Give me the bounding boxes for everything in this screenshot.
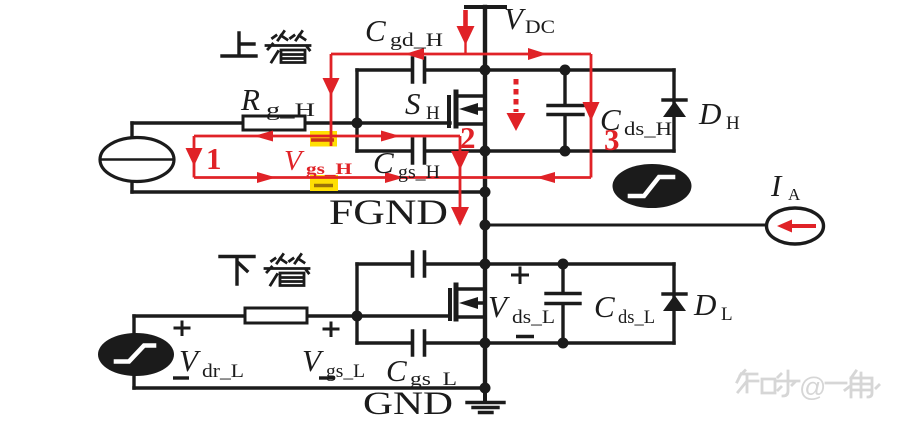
capacitor C_gs_H — [413, 139, 425, 163]
svg-text:C: C — [365, 13, 386, 48]
wire C_gs_H line y=151 (source line to D_H loop bottom) — [357, 149, 674, 152]
wire red loop2 vertical x=460 — [459, 136, 462, 224]
wire top loop line y=70 (gate to C_gd_H to drain rail to D_H) — [357, 68, 674, 71]
svg-text:GND: GND — [363, 386, 453, 421]
diode D_L branch wire — [672, 264, 675, 343]
svg-text:gd_H: gd_H — [390, 30, 443, 51]
node plus highlight (yellow) — [310, 131, 337, 147]
capacitor C_gd_L — [413, 252, 425, 276]
wire upper-left loop vertical — [355, 70, 358, 151]
arrow down loop1 — [186, 148, 203, 166]
node drain_L — [480, 259, 491, 270]
arrow down x=460 lower — [451, 207, 469, 226]
node dots — [352, 65, 571, 394]
arrow down on x=331 — [323, 78, 340, 96]
capacitor C_ds_H — [548, 70, 583, 151]
resistor R_g_H — [243, 116, 305, 130]
wire red vertical to gate plus — [330, 54, 333, 146]
diode D_H branch wire — [672, 70, 675, 151]
node Cds_H top — [560, 65, 571, 76]
driver icon U_H (black ellipse with slew symbol) — [613, 164, 692, 208]
minus sign Vgs_H — [314, 184, 333, 188]
wire C_gs_L line y=343 — [357, 341, 674, 344]
arrow right on y=136 — [381, 131, 400, 142]
node gate_L — [352, 311, 363, 322]
wire red gate line y=136 — [194, 135, 460, 138]
arrow right on y=177.5 mid — [385, 172, 404, 183]
wire red dashed drain current — [514, 79, 519, 112]
svg-text:V: V — [504, 1, 526, 36]
svg-text:D: D — [693, 287, 716, 322]
svg-text:L: L — [721, 304, 733, 325]
svg-text:C: C — [594, 289, 615, 324]
svg-text:A: A — [788, 185, 801, 204]
RED-OVERLAY — [194, 10, 591, 224]
capacitor C_ds_L — [546, 264, 580, 343]
svg-text:gs_H: gs_H — [306, 161, 353, 178]
svg-text:ds_H: ds_H — [624, 119, 672, 140]
svg-text:1: 1 — [206, 141, 222, 176]
node Cds_L bottom — [558, 338, 569, 349]
arrow left on y=136 — [254, 131, 273, 142]
diode D_L symbol — [663, 292, 686, 295]
source V_dr_H (upper driver source circle) — [130, 123, 133, 192]
arrow red feed down — [457, 26, 475, 45]
node gate_H — [352, 118, 363, 129]
diode D_H symbol — [663, 98, 686, 101]
wire red loop3 vertical x=591 — [590, 54, 593, 178]
node FGND — [480, 187, 491, 198]
svg-text:FGND: FGND — [329, 192, 448, 232]
plus/minus signs black — [173, 267, 534, 379]
node Cds_H bottom — [560, 146, 571, 157]
label 下管 (lower tube) — [220, 255, 309, 286]
arrow left on y=177.5 — [536, 172, 555, 183]
arrow left on y=54 — [405, 48, 424, 60]
svg-text:V: V — [488, 289, 510, 324]
wire red loop1 left vertical — [193, 136, 196, 178]
TEXT-LABELS — [179, 1, 801, 421]
wire C_gd_L line y=264 — [357, 262, 674, 265]
current source I_A — [767, 208, 824, 244]
ground symbol — [483, 388, 487, 401]
plus sign V_gs_L — [323, 322, 340, 338]
capacitor C_gd_H — [413, 58, 425, 82]
svg-text:V: V — [179, 343, 201, 378]
wire GND line y=388 — [134, 386, 485, 389]
capacitor C_gs_L — [413, 331, 425, 355]
svg-text:2: 2 — [460, 120, 476, 155]
svg-text:C: C — [373, 145, 394, 180]
wire lower-left loop vertical — [355, 264, 358, 343]
svg-text:D: D — [698, 96, 721, 131]
svg-text:ds_L: ds_L — [512, 307, 555, 328]
arrow down x=591 loop3 — [583, 102, 600, 121]
wire I_A line y=225 — [485, 224, 766, 227]
svg-text:R: R — [240, 82, 260, 117]
minus sign V_dr_L — [173, 376, 189, 379]
arrow dashed drain current (head) — [507, 113, 526, 131]
svg-text:S: S — [405, 86, 421, 121]
wire red return line y=177.5 — [194, 176, 591, 179]
svg-text:3: 3 — [604, 122, 620, 157]
node minus highlight (yellow) — [310, 175, 338, 191]
svg-text:g_H: g_H — [266, 100, 315, 121]
source V_dr_L (black driver ellipse) — [98, 333, 174, 376]
transistor S_L (lower MOSFET) — [448, 290, 452, 319]
node IA tap — [480, 220, 491, 231]
node source S_H — [480, 146, 491, 157]
wire red top horizontal y=54 — [331, 53, 591, 56]
node Cds_L top — [558, 259, 569, 270]
arrow right on y=177.5 left — [257, 172, 276, 183]
wire FGND line y=192 — [132, 190, 485, 193]
arrow down x=460 upper — [451, 151, 469, 170]
svg-text:H: H — [426, 103, 440, 124]
plus sign V_dr_L — [174, 321, 191, 337]
arrow right on y=54 — [528, 48, 547, 60]
svg-text:gs_H: gs_H — [398, 162, 440, 183]
node drain top — [480, 65, 491, 76]
wire red feed from VDC — [463, 10, 468, 27]
source V_dr_L wires — [132, 316, 135, 388]
wire main vertical rail (drain-source bus) — [483, 7, 487, 388]
watermark 知乎 @一舟 — [737, 371, 879, 398]
svg-text:ds_L: ds_L — [618, 307, 655, 328]
wire VDC top bar — [466, 5, 505, 9]
node GND — [480, 383, 491, 394]
plus sign Vgs_H crossbar — [311, 138, 334, 141]
svg-text:V: V — [302, 343, 324, 378]
svg-text:dr_L: dr_L — [202, 361, 244, 382]
svg-text:H: H — [726, 113, 740, 134]
minus sign V_gs_L — [319, 376, 335, 379]
wire lower gate wire y=316 — [134, 314, 450, 317]
label 上管 (upper tube) — [222, 32, 310, 63]
wire upper gate wire y=123 — [132, 121, 450, 124]
minus sign V_ds_L — [516, 335, 534, 338]
svg-text:I: I — [770, 168, 783, 203]
resistor R_g_L — [245, 308, 307, 323]
svg-text:DC: DC — [525, 17, 555, 38]
transistor S_H (upper MOSFET) — [447, 97, 451, 126]
svg-text:C: C — [386, 353, 407, 388]
plus sign V_ds_L — [511, 267, 529, 285]
node source_L — [480, 338, 491, 349]
svg-text:@: @ — [799, 372, 826, 402]
